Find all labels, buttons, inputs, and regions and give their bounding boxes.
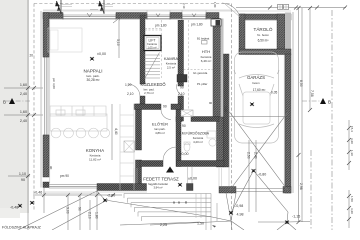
south wall bathroom segment [177, 161, 225, 167]
svg-text:B1 bejárat: B1 bejárat [197, 37, 210, 41]
left wall bottom corner [43, 182, 49, 188]
far right dim cluster lower [348, 190, 350, 228]
svg-text:2,40: 2,40 [20, 119, 27, 123]
svg-text:±0,00: ±0,00 [97, 52, 106, 56]
pillar box top [211, 19, 221, 26]
konyha appliance X box [124, 141, 135, 152]
roof overhang dashed outline [34, 4, 231, 212]
svg-text:pm 3,00: pm 3,00 [52, 78, 56, 89]
far right dim cluster upper [348, 120, 350, 170]
svg-text:GARÁZS: GARÁZS [247, 75, 265, 80]
door arc kamra [174, 84, 186, 96]
bottom-left diagonals [18, 191, 212, 230]
radiating lines bottom [258, 212, 310, 230]
slope triangle to -0,80 [231, 171, 288, 213]
wall top band: tarolo/garage top [240, 14, 291, 20]
svg-text:pm 90: pm 90 [60, 174, 69, 178]
svg-text:HTH: HTH [202, 49, 210, 54]
bottom-left dim line [33, 194, 122, 196]
window nappali left [45, 57, 49, 135]
driveway line [97, 191, 105, 200]
svg-text:FÖLDSZINT ALAPRAJZ: FÖLDSZINT ALAPRAJZ [2, 226, 42, 230]
svg-text:90: 90 [182, 124, 186, 128]
svg-text:4,20 m²: 4,20 m² [193, 140, 203, 144]
svg-text:pm 1,80: pm 1,80 [155, 24, 167, 28]
door arc nappali-kozlekedo [128, 84, 141, 96]
window nappali top [63, 15, 116, 18]
kitchen upper counter row [50, 106, 106, 116]
svg-text:KAMRA: KAMRA [164, 56, 179, 61]
door arc eloter front [163, 147, 177, 161]
wall top band: mid segment [116, 13, 147, 19]
property dashed line through garage [231, 4, 233, 231]
svg-text:3,00: 3,00 [66, 207, 70, 214]
stairs [144, 53, 160, 79]
lift shaft [144, 36, 161, 51]
garage inner leaf [224, 54, 230, 167]
kozlekedo bottom wall [134, 104, 161, 110]
svg-text:6,49 m²: 6,49 m² [201, 59, 212, 63]
wall bathroom/garage lower [217, 117, 224, 167]
window corridor top [147, 15, 170, 18]
svg-text:3,94 m²: 3,94 m² [153, 185, 162, 189]
terrace south wall [97, 184, 147, 191]
garage bottom stub left [219, 187, 236, 194]
window konyha south [49, 185, 97, 189]
svg-text:90: 90 [78, 207, 82, 211]
svg-text:-1,15: -1,15 [292, 215, 300, 219]
svg-text:17,60 m²: 17,60 m² [253, 88, 266, 92]
tarolo right wall [277, 14, 285, 49]
svg-text:-0,46: -0,46 [34, 191, 42, 195]
wall hth/garage upper [213, 19, 221, 118]
svg-text:1,10: 1,10 [19, 172, 26, 176]
svg-text:30: 30 [177, 201, 181, 205]
svg-text:2,76 m²: 2,76 m² [144, 91, 154, 95]
svg-text:1,60: 1,60 [20, 83, 27, 87]
svg-text:2,10: 2,10 [178, 92, 185, 96]
svg-text:1,60: 1,60 [20, 110, 27, 114]
left exterior wall upper [43, 13, 49, 58]
terrace entrance triangle [166, 167, 174, 173]
left horiz dim lines [4, 88, 43, 176]
svg-text:2,98: 2,98 [299, 183, 303, 190]
svg-text:FEDETT TERASZ: FEDETT TERASZ [143, 177, 179, 182]
left margin dims [19, 83, 27, 182]
svg-text:Kerámia: Kerámia [147, 42, 157, 46]
svg-text:2.M.FÜRDŐSZOBA: 2.M.FÜRDŐSZOBA [179, 131, 210, 136]
svg-text:B: B [3, 100, 6, 105]
svg-text:1,80: 1,80 [213, 2, 217, 8]
svg-text:4,98: 4,98 [237, 213, 244, 217]
bottom-left vertical chains [44, 186, 97, 230]
svg-text:2,10: 2,10 [88, 212, 92, 219]
wall top band: right of HTH window [206, 13, 219, 19]
dining table [50, 114, 107, 131]
chairs [51, 128, 61, 138]
svg-text:B: B [328, 100, 331, 105]
svg-text:pm 1,80: pm 1,80 [191, 23, 203, 27]
svg-text:1,50: 1,50 [350, 196, 354, 202]
left vertical chain line [27, 0, 29, 230]
tarolo left wall [239, 14, 245, 54]
nappali rug / sofa [48, 28, 82, 52]
B1 bejarat small box [202, 41, 208, 45]
svg-text:TÁROLÓ: TÁROLÓ [254, 26, 273, 32]
garage right wall [285, 54, 291, 193]
site gray margin left [0, 0, 29, 213]
svg-text:1,05 m²: 1,05 m² [147, 46, 156, 50]
svg-text:3,20: 3,20 [350, 208, 354, 214]
svg-text:G1 gerenda: G1 gerenda [193, 71, 208, 75]
svg-text:P1 pillér: P1 pillér [197, 82, 207, 86]
svg-text:-0,98: -0,98 [235, 204, 243, 208]
outer skin thin lines along exterior walls [41, 10, 294, 193]
interior wall kamra/hth [178, 20, 184, 86]
window center V ticks [87, 13, 196, 17]
terrace post [187, 184, 194, 191]
garage inner verticals [249, 140, 256, 212]
svg-text:2,40: 2,40 [254, 152, 258, 159]
tarolo bottom wall [239, 49, 291, 55]
inner wall face lines [49, 20, 285, 187]
left exterior wall lower [43, 135, 49, 177]
svg-text:KÖZLEKEDŐ: KÖZLEKEDŐ [140, 82, 165, 87]
svg-text:-0,80: -0,80 [258, 173, 266, 177]
svg-text:1,30: 1,30 [350, 150, 354, 156]
window hth top [182, 15, 206, 18]
arrow on 1,50 line [212, 225, 216, 228]
tarolo outer skin [285, 13, 291, 55]
svg-text:4,40: 4,40 [114, 128, 118, 135]
svg-text:3,20: 3,20 [350, 138, 354, 144]
big X in garage [230, 112, 289, 191]
section marker right [320, 98, 326, 104]
svg-text:1,80: 1,80 [95, 212, 99, 219]
chimney block P1 [177, 75, 187, 83]
survey flag markers top [56, 0, 114, 14]
svg-text:-0,05: -0,05 [270, 91, 277, 95]
interior wall konyha/eloter [136, 104, 142, 150]
jamb ticks [43, 14, 206, 136]
svg-text:3,10: 3,10 [116, 39, 120, 46]
svg-text:ELŐTÉR: ELŐTÉR [152, 122, 168, 127]
top small ticks above walls [147, 10, 206, 14]
svg-text:-2,60: -2,60 [107, 194, 115, 198]
svg-text:±0,00: ±0,00 [180, 152, 189, 156]
interior dashed axes [188, 20, 190, 116]
eloter/bathroom west wall [176, 110, 181, 167]
svg-text:30,28 m²: 30,28 m² [86, 78, 100, 82]
svg-text:fm. beton: fm. beton [257, 33, 269, 37]
corridor washer box with X [181, 110, 193, 117]
nappali inner dim [112, 20, 119, 160]
svg-text:2,40: 2,40 [20, 92, 27, 96]
svg-text:90: 90 [209, 101, 213, 105]
boundary dash-dot right [331, 10, 333, 230]
bathroom toilet [184, 143, 190, 151]
svg-text:KONYHA: KONYHA [86, 148, 104, 153]
svg-text:90: 90 [21, 178, 25, 182]
svg-text:90: 90 [180, 86, 184, 90]
svg-text:6,50 m²: 6,50 m² [258, 39, 269, 43]
svg-text:90: 90 [184, 201, 188, 205]
svg-text:90: 90 [163, 105, 167, 109]
level X markers [18, 57, 289, 224]
beam dashed lines [145, 29, 213, 70]
chimney vents above wall top-right [278, 5, 289, 10]
right vertical dims [299, 8, 311, 222]
svg-text:1,50: 1,50 [197, 222, 204, 226]
svg-text:30: 30 [172, 201, 176, 205]
rotated dim texts [49, 2, 354, 219]
svg-text:3,30: 3,30 [224, 106, 228, 112]
svg-text:20: 20 [30, 54, 34, 58]
top-right horizontal dim [236, 7, 346, 9]
leader arrows [113, 18, 120, 24]
wall top band: segment between windows [170, 13, 182, 19]
wall top band: left segment [43, 13, 63, 19]
svg-text:2,10: 2,10 [182, 3, 186, 9]
section line B-B [6, 100, 324, 102]
svg-text:-0,48: -0,48 [10, 206, 18, 210]
svg-text:1,20: 1,20 [125, 83, 132, 87]
svg-text:2,50: 2,50 [247, 152, 251, 159]
svg-text:4,86 m²: 4,86 m² [155, 131, 165, 135]
svg-text:2,5 m²: 2,5 m² [167, 66, 175, 70]
svg-text:NAPPALI: NAPPALI [83, 69, 102, 74]
svg-text:LIFT: LIFT [149, 39, 156, 43]
interior wall nappali/kozlekedo upper [140, 15, 145, 84]
bathroom top wall [176, 117, 182, 122]
section marker left [9, 98, 15, 104]
door arc kozlekedo-eloter [161, 110, 171, 120]
svg-text:7,58: 7,58 [310, 90, 314, 97]
svg-text:15,4: 15,4 [350, 126, 354, 132]
svg-text:2,10: 2,10 [127, 92, 134, 96]
garage bottom stub right [283, 187, 291, 194]
svg-text:11,82 m²: 11,82 m² [89, 158, 101, 162]
svg-text:2,25: 2,25 [160, 223, 167, 227]
svg-text:±0,00: ±0,00 [188, 177, 197, 181]
kitchen tall unit column [120, 104, 134, 190]
left ticks [26, 86, 36, 117]
svg-text:8,50: 8,50 [299, 80, 303, 87]
south wall eloter segment [140, 161, 163, 167]
svg-text:beton: beton [253, 81, 260, 85]
garage door lines [236, 189, 283, 192]
bathroom sink [209, 139, 216, 146]
